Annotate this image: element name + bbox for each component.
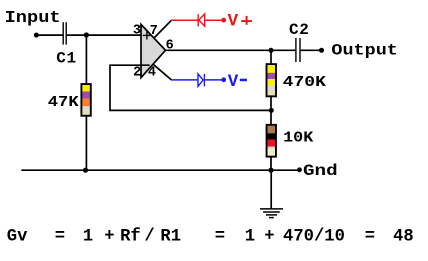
svg-text:V: V <box>228 11 239 31</box>
svg-text:Input: Input <box>5 9 61 28</box>
svg-text:=: = <box>55 227 65 246</box>
svg-text:/: / <box>144 227 154 246</box>
svg-text:+: + <box>264 227 274 246</box>
svg-text:47K: 47K <box>48 94 79 111</box>
svg-text:Gnd: Gnd <box>303 162 338 180</box>
svg-text:Gv: Gv <box>7 227 28 246</box>
svg-text:Output: Output <box>331 41 398 59</box>
svg-text:2: 2 <box>133 66 141 81</box>
svg-text:48: 48 <box>393 227 414 246</box>
svg-text:+: + <box>104 227 114 246</box>
svg-text:C1: C1 <box>56 50 76 68</box>
svg-text:Rf: Rf <box>120 227 141 246</box>
svg-text:1: 1 <box>83 227 93 246</box>
svg-text:7: 7 <box>150 24 158 39</box>
svg-text:6: 6 <box>166 39 174 54</box>
svg-text:3: 3 <box>133 24 141 39</box>
svg-text:R1: R1 <box>160 227 181 246</box>
svg-text:470/10: 470/10 <box>283 227 345 246</box>
svg-text:=: = <box>365 227 375 246</box>
svg-text:=: = <box>215 227 225 246</box>
svg-text:1: 1 <box>245 227 255 246</box>
svg-text:C2: C2 <box>289 21 309 39</box>
svg-text:10K: 10K <box>283 130 313 147</box>
svg-text:4: 4 <box>148 65 156 80</box>
svg-text:470K: 470K <box>283 74 326 91</box>
svg-text:V: V <box>228 72 239 92</box>
